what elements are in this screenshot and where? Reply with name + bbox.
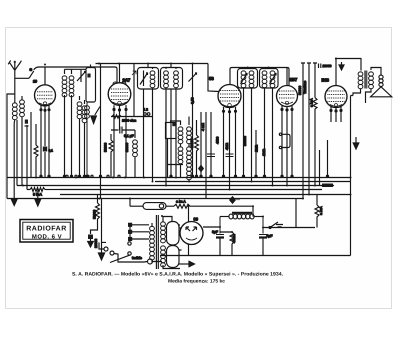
coil in can B	[164, 68, 169, 186]
ground	[35, 200, 41, 207]
risers to top rail	[248, 67, 269, 69]
can B riser	[170, 64, 172, 68]
coil L8	[133, 130, 138, 178]
voltage taps	[110, 223, 149, 262]
wire	[130, 199, 253, 217]
padder C3	[189, 64, 197, 178]
wire + resistor R10	[190, 120, 199, 178]
coil L2 secondary	[20, 96, 25, 186]
coil L3	[77, 96, 82, 178]
jack terminals	[279, 133, 290, 149]
choke L10	[220, 214, 263, 219]
secondary capsule B	[167, 246, 180, 268]
rectifier tube 80	[180, 206, 220, 255]
IF transformer can D	[260, 69, 279, 89]
rail y67	[230, 68, 289, 86]
tube V4 2B7	[277, 67, 298, 107]
top loop rail	[39, 67, 118, 82]
capacitor C1 (blob)	[43, 147, 53, 153]
coil in can B2	[174, 68, 179, 178]
bus 5	[60, 194, 351, 196]
resistor R6 50000	[91, 195, 100, 235]
tube V1 pins	[40, 106, 50, 178]
svg-text:4500: 4500	[216, 136, 220, 144]
wire left branch	[7, 94, 15, 199]
trimmer arrow can C	[241, 74, 248, 85]
RF transformer secondary	[69, 69, 74, 177]
output transformer T2	[353, 58, 381, 103]
trimmer arrow	[77, 70, 86, 82]
svg-text:0,1: 0,1	[49, 149, 54, 153]
terminals 1 2	[144, 108, 150, 116]
resistor R5	[174, 200, 253, 209]
IF2 box	[166, 123, 177, 139]
capacitor C10	[319, 64, 332, 69]
speaker voice coil	[379, 75, 383, 86]
heater center tap arrow	[179, 261, 195, 266]
power transformer primary	[150, 223, 155, 263]
svg-text:8μF: 8μF	[267, 234, 273, 238]
svg-text:2B7: 2B7	[290, 77, 298, 82]
osc blob	[87, 74, 90, 78]
resistor R9	[310, 98, 318, 186]
svg-text:30000: 30000	[125, 143, 129, 152]
bus 3	[17, 185, 334, 187]
svg-text:30000: 30000	[190, 139, 194, 148]
switch arm	[269, 222, 283, 229]
svg-text:0,50: 0,50	[191, 97, 195, 104]
bus 4	[60, 189, 322, 191]
svg-text:1000 ohm: 1000 ohm	[122, 119, 137, 123]
can riser	[90, 65, 92, 68]
svg-text:4 mΩ: 4 mΩ	[201, 123, 205, 131]
oscillator can	[86, 68, 96, 103]
antenna stem	[14, 70, 16, 102]
line to caps	[263, 227, 315, 229]
HV leads	[163, 217, 180, 269]
power transformer HV secondary	[161, 219, 166, 267]
arrow down	[353, 137, 359, 149]
tube V4 pins	[281, 106, 293, 186]
capacitor blob C11	[25, 120, 29, 127]
antenna coil L1	[12, 102, 17, 199]
IF2 blob	[172, 123, 176, 127]
coil in can D2	[270, 69, 275, 186]
plate lead V2	[132, 64, 136, 117]
wire	[26, 125, 28, 190]
wire	[16, 120, 18, 186]
wire	[205, 112, 207, 199]
svg-text:S. A. RADIOFAR. — Modello «6V»: S. A. RADIOFAR. — Modello «6V» e S.A.I.R…	[72, 272, 284, 278]
wire	[295, 199, 297, 228]
tube V5 pins	[330, 106, 342, 122]
grid arrow	[339, 62, 344, 70]
tube V2 pins	[113, 105, 127, 177]
antenna	[8, 60, 21, 70]
thick bar	[232, 212, 252, 214]
IF2 wires	[168, 117, 190, 182]
coil in can A	[150, 68, 155, 182]
speaker cone	[371, 87, 392, 97]
wire stem to switch	[15, 77, 29, 79]
oscillator coil L6	[85, 102, 90, 178]
resistor R2	[109, 134, 113, 178]
wire right return	[351, 96, 354, 256]
IF transformer can A	[138, 68, 159, 90]
svg-text:10: 10	[33, 80, 37, 84]
svg-text:10000: 10000	[323, 64, 332, 68]
coil L4	[82, 100, 87, 178]
switch S1	[29, 67, 39, 84]
svg-text:Tensione: Tensione	[303, 81, 307, 94]
svg-text:20000: 20000	[94, 239, 98, 248]
svg-text:50000: 50000	[104, 143, 108, 152]
bus 1	[7, 177, 351, 179]
diamond junction	[230, 197, 235, 203]
power transformer core	[156, 215, 158, 269]
svg-text:4MΩ: 4MΩ	[225, 142, 229, 150]
tube V3 58	[208, 64, 241, 108]
mains plug	[99, 242, 144, 262]
capacitor C4 black	[322, 184, 333, 188]
svg-text:Media frequenza: 175 kc: Media frequenza: 175 kc	[168, 279, 225, 285]
RADIOFAR label box	[20, 220, 73, 243]
svg-text:0,1 μF: 0,1 μF	[124, 134, 134, 138]
wire y116.5	[111, 116, 152, 118]
svg-text:a Im A: a Im A	[176, 200, 186, 204]
svg-text:MOD. 6 V: MOD. 6 V	[32, 234, 62, 241]
svg-text:80: 80	[194, 217, 199, 222]
svg-text:8μF: 8μF	[212, 230, 218, 234]
heater lead	[179, 228, 182, 250]
RF transformer primary	[62, 69, 67, 177]
capacitor C5 8uF	[212, 217, 224, 256]
fuse	[132, 256, 162, 264]
svg-text:2A7: 2A7	[123, 78, 131, 83]
resistor R1	[34, 124, 38, 178]
trimmer in can A	[140, 71, 148, 178]
wire	[170, 89, 172, 178]
bus 2	[155, 181, 351, 183]
wire	[100, 64, 102, 199]
capacitor C8	[207, 154, 215, 157]
trimmer arrow can D	[270, 74, 277, 85]
svg-text:RADIOFAR: RADIOFAR	[26, 226, 67, 233]
wire	[255, 130, 257, 178]
top bars	[301, 62, 317, 64]
svg-text:a ImA: a ImA	[319, 206, 323, 215]
wire	[210, 112, 212, 178]
svg-text:45mΩ: 45mΩ	[232, 234, 236, 243]
ground	[98, 253, 104, 260]
resistor R3	[315, 195, 323, 228]
tube V3 pins	[223, 107, 237, 190]
tube V5 E43	[325, 59, 347, 108]
top rail y63.5	[96, 63, 209, 65]
top rail y58	[335, 58, 361, 60]
wire	[200, 112, 202, 178]
coil in can C2	[249, 69, 254, 182]
pilot lamp	[130, 203, 174, 210]
svg-text:1 2: 1 2	[144, 108, 149, 112]
tube V2 2A7	[108, 64, 131, 106]
output transformer core	[364, 71, 367, 89]
IF transformer can B	[161, 68, 183, 90]
resistor R8 1000ohm	[112, 115, 137, 123]
IF2 coil b	[187, 127, 192, 180]
capacitor C7 blob	[88, 235, 93, 240]
coil in can C	[241, 69, 246, 178]
svg-text:a ImA: a ImA	[310, 98, 314, 107]
capacitor C9	[226, 154, 234, 157]
ground (antenna)	[11, 199, 17, 206]
bus terminal circles	[40, 175, 329, 177]
coil in can D	[262, 69, 267, 178]
page border	[6, 28, 392, 309]
can A riser	[147, 64, 149, 68]
svg-text:50000: 50000	[298, 86, 302, 95]
capacitor C6 8uF	[259, 217, 272, 256]
bottom rail	[160, 255, 351, 257]
wire coil tops	[65, 68, 87, 70]
svg-text:fusibile: fusibile	[132, 256, 142, 260]
AVC arrow	[91, 107, 100, 124]
IF transformer can C	[238, 69, 258, 89]
wire R7b	[102, 199, 107, 254]
diamond junction 2	[199, 166, 204, 172]
wire to ground	[37, 190, 39, 200]
svg-text:58: 58	[209, 76, 214, 81]
svg-text:50000: 50000	[93, 210, 97, 219]
capacitor C2	[111, 127, 135, 139]
svg-text:E43: E43	[322, 78, 330, 83]
IF2 coil a	[178, 127, 183, 164]
ground	[88, 239, 94, 247]
bus 6	[7, 198, 303, 200]
resistor R4 6ImA	[27, 188, 60, 197]
svg-text:6 ImA: 6 ImA	[33, 193, 43, 197]
tube V1 56	[35, 67, 56, 106]
wire	[30, 112, 32, 178]
resistor R7	[220, 232, 236, 256]
secondary capsule A	[167, 222, 180, 246]
wire long verticals right	[303, 63, 328, 199]
